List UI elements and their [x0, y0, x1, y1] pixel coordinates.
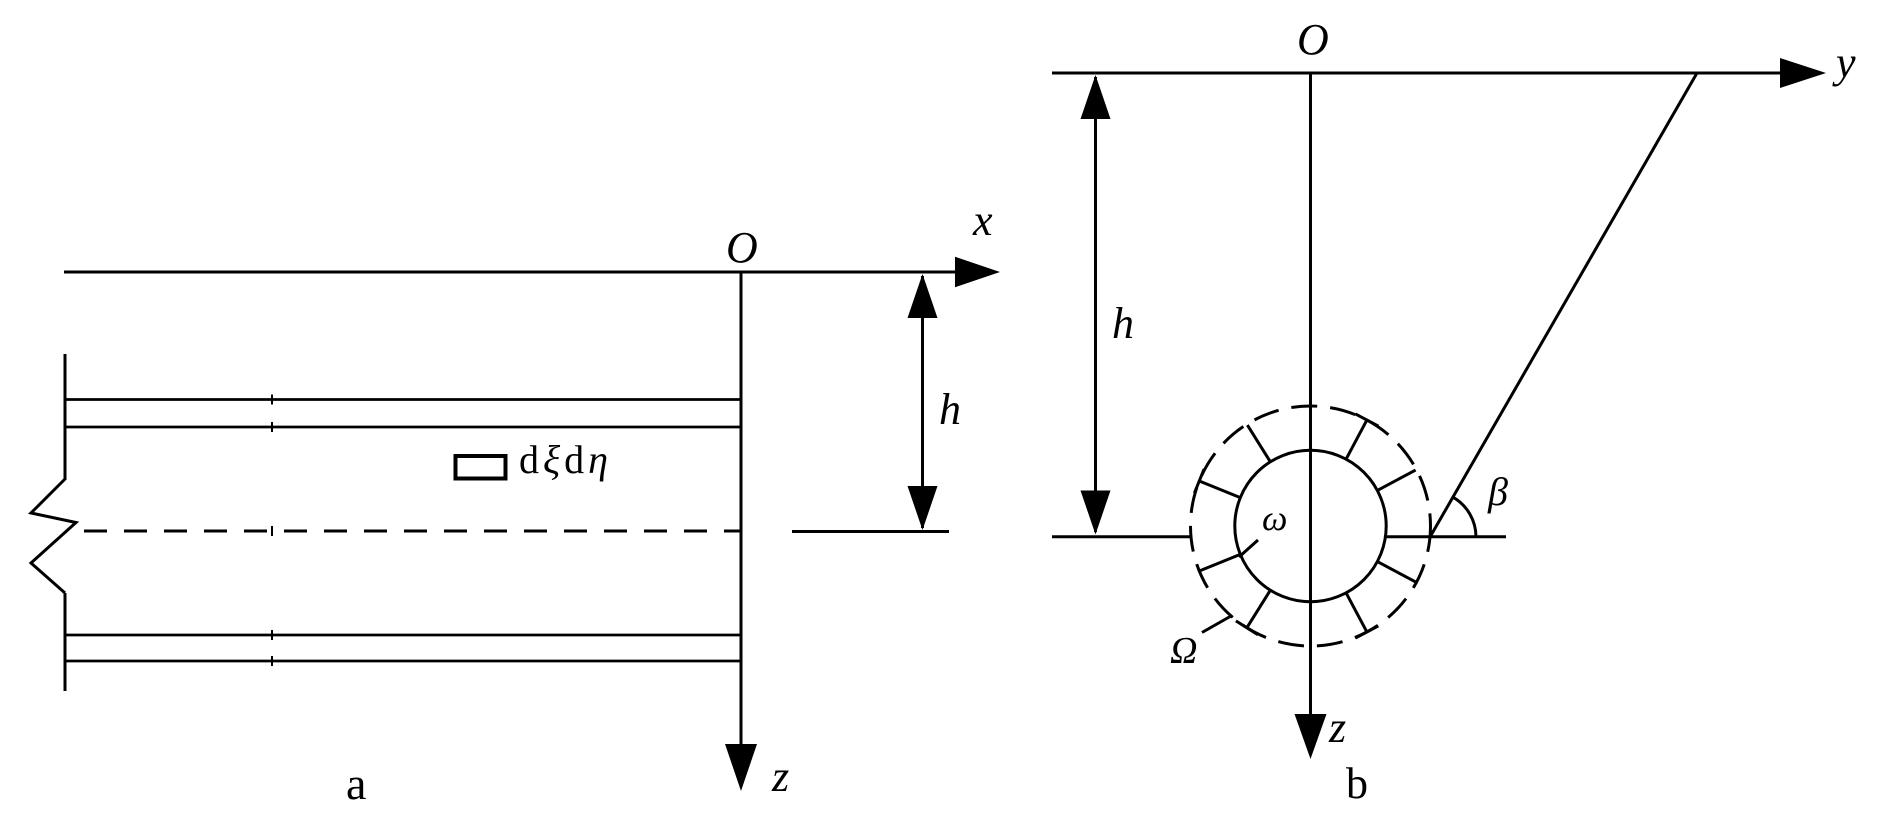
joint tick on centerline — [271, 526, 273, 536]
z-axis arrowhead (fig b) — [1295, 714, 1327, 759]
z-axis (fig b) — [1309, 73, 1312, 730]
h top arrowhead (fig b) — [1081, 75, 1111, 119]
svg-text:ω: ω — [1262, 498, 1287, 538]
svg-text:β: β — [1487, 469, 1508, 514]
h dimension stem (fig b) — [1094, 77, 1097, 532]
svg-text:O: O — [1297, 15, 1329, 64]
joint tick on layer line 4 — [271, 656, 273, 666]
h bottom arrowhead (fig b) — [1081, 491, 1111, 535]
svg-text:b: b — [1346, 759, 1368, 808]
y-axis arrowhead — [1780, 58, 1826, 88]
svg-text:dξdη: dξdη — [519, 437, 612, 482]
h bottom arrowhead (fig a) — [908, 486, 938, 530]
left boundary upper segment — [64, 354, 67, 480]
ground line right (fig b) — [1386, 535, 1506, 538]
lining cap dash at 158deg — [1194, 469, 1204, 493]
soil layer line 4 — [65, 660, 741, 663]
svg-text:h: h — [939, 385, 961, 434]
x-axis — [64, 271, 958, 274]
omega leader line — [1239, 540, 1258, 557]
svg-text:y: y — [1832, 38, 1856, 87]
tunnel axis dashed centerline — [84, 530, 741, 533]
tunnel lining dashed circle — [1191, 406, 1431, 646]
svg-text:Ω: Ω — [1170, 630, 1197, 672]
z-axis (fig a) — [740, 272, 743, 760]
slant boundary line — [1430, 73, 1697, 537]
lining cap dash at 298deg — [1355, 626, 1378, 638]
joint tick on layer line 2 — [271, 422, 273, 432]
lining cap dash at 238deg — [1236, 621, 1258, 635]
break zigzag — [31, 479, 76, 593]
joint tick on layer line 3 — [271, 630, 273, 640]
grout spoke 28deg — [1378, 470, 1416, 490]
joint tick on layer line 1 — [271, 395, 273, 405]
grout spoke 122deg — [1247, 425, 1270, 462]
grout spoke 332deg — [1378, 562, 1416, 582]
soil layer line 2 — [65, 426, 741, 429]
svg-text:a: a — [346, 758, 366, 809]
soil layer line 3 — [65, 634, 741, 637]
svg-text:h: h — [1112, 299, 1134, 348]
ground line left (fig b) — [1052, 535, 1192, 538]
y-axis — [1052, 72, 1784, 75]
grout spoke 238deg — [1247, 590, 1270, 627]
tunnel inner circle — [1235, 450, 1386, 601]
left boundary lower segment — [64, 593, 67, 691]
grout spoke 202deg — [1200, 555, 1240, 571]
element rectangle d xi d eta — [456, 456, 506, 479]
svg-text:O: O — [726, 223, 758, 272]
h top arrowhead (fig a) — [908, 274, 938, 318]
h dimension stem (fig a) — [921, 276, 924, 528]
ground level mark right of z-axis — [792, 530, 949, 533]
beta angle arc — [1453, 497, 1476, 537]
z-axis arrowhead (fig a) — [725, 744, 757, 791]
svg-text:z: z — [771, 752, 789, 801]
soil layer line 1 — [65, 398, 741, 401]
svg-text:x: x — [972, 196, 993, 245]
grout spoke 62deg — [1346, 421, 1366, 459]
grout spoke 158deg — [1200, 481, 1240, 497]
lining cap dash at 62deg — [1355, 414, 1378, 426]
x-axis arrowhead — [955, 257, 1000, 288]
grout spoke 298deg — [1346, 593, 1366, 631]
Omega leader line — [1202, 616, 1231, 633]
svg-text:z: z — [1328, 703, 1346, 752]
